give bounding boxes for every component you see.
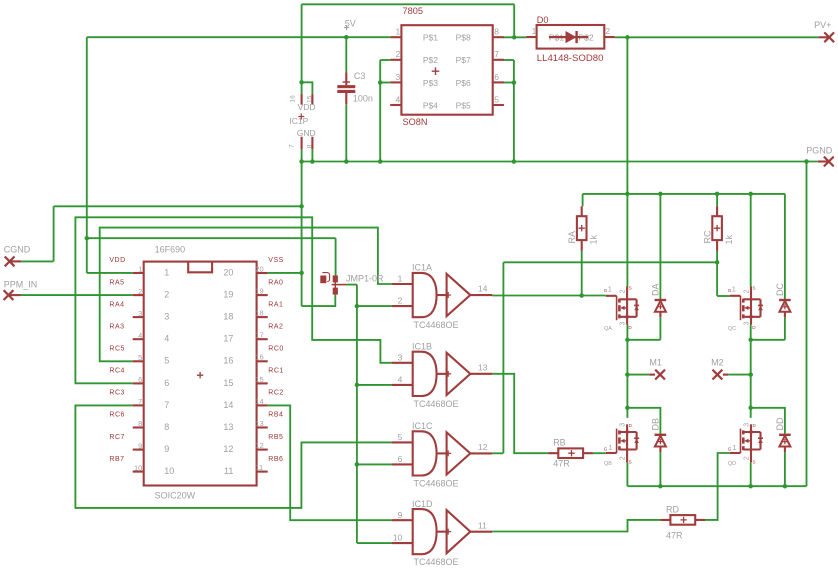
wire M1 column	[626, 325, 628, 418]
svg-text:RC6: RC6	[109, 412, 125, 419]
svg-text:1k: 1k	[589, 234, 599, 244]
svg-text:P$5: P$5	[456, 100, 471, 110]
wire bypass down	[513, 4, 515, 37]
wire top bypass	[302, 3, 515, 5]
wire C3 to rail	[345, 104, 347, 161]
svg-text:RA: RA	[567, 231, 577, 244]
wire DA bottom	[627, 339, 660, 341]
svg-text:11: 11	[478, 520, 487, 530]
voltage regulator 7805 (SO8N)	[390, 6, 504, 127]
svg-text:12: 12	[223, 444, 233, 454]
svg-text:13: 13	[255, 419, 263, 428]
wire RC4 to IC1B in1	[75, 217, 391, 383]
svg-text:3: 3	[744, 423, 751, 427]
wire CGND stub	[21, 260, 54, 262]
wire JMP1 to enable	[347, 284, 357, 286]
resistor RC 1k (vertical)	[703, 206, 734, 251]
transistor QA MOSFET	[604, 285, 639, 333]
svg-text:10: 10	[393, 533, 403, 543]
wire GND down to VSS	[301, 162, 303, 307]
wire to M2	[728, 374, 751, 376]
svg-text:IC1B: IC1B	[412, 342, 432, 352]
svg-text:5: 5	[398, 432, 403, 442]
svg-text:17: 17	[255, 331, 263, 340]
wire GND to JMP1 pad2	[302, 295, 336, 307]
junction	[344, 35, 349, 40]
capacitor C3 100n	[337, 71, 373, 104]
junction	[748, 192, 753, 197]
port CGND X	[5, 257, 15, 267]
wire P$2 P$3 to rail	[379, 60, 381, 162]
junction	[625, 406, 630, 411]
junction	[625, 338, 630, 343]
svg-text:RB5: RB5	[268, 434, 283, 441]
diode DA	[650, 283, 666, 317]
svg-text:RB7: RB7	[109, 456, 124, 463]
svg-text:4: 4	[395, 94, 400, 104]
svg-text:RC3: RC3	[109, 390, 125, 397]
wire IC1C out up	[502, 262, 504, 453]
wire GND to CGND	[54, 205, 302, 207]
svg-text:LL4148-SOD80: LL4148-SOD80	[537, 53, 604, 64]
svg-text:2: 2	[398, 296, 403, 306]
svg-text:PPM_IN: PPM_IN	[4, 280, 38, 290]
wire DD to rail	[784, 452, 786, 486]
diode DD	[775, 417, 791, 452]
wire RA bottom	[581, 251, 583, 296]
wire P$8 to D0	[503, 36, 526, 38]
svg-text:TC4468OE: TC4468OE	[414, 399, 459, 409]
svg-text:18: 18	[223, 312, 233, 322]
wire IC1B out to RB	[492, 374, 548, 453]
wire QC gate	[717, 295, 730, 297]
svg-text:P$4: P$4	[423, 100, 438, 110]
wire PGND bottom rail	[627, 485, 806, 487]
wire DC bottom	[751, 339, 785, 341]
driver gate IC1D TC4468	[392, 499, 493, 567]
junction	[658, 484, 663, 489]
svg-text:RC1: RC1	[268, 368, 284, 375]
svg-text:IC1C: IC1C	[412, 421, 433, 431]
junction	[715, 192, 720, 197]
svg-text:16: 16	[289, 95, 296, 103]
wire DD top	[751, 408, 785, 434]
svg-text:2: 2	[605, 26, 610, 36]
resistor RD 47R (horizontal)	[661, 505, 705, 541]
microcontroller IC1 16F690 SOIC20W	[109, 245, 283, 501]
diode DB	[650, 418, 666, 452]
svg-text:13: 13	[478, 362, 488, 372]
svg-text:5: 5	[164, 356, 169, 366]
svg-text:6: 6	[398, 454, 403, 464]
svg-text:47R: 47R	[666, 530, 683, 540]
port PPM_IN X	[4, 290, 14, 300]
wire IC1A out to QA gate	[492, 295, 606, 297]
wire RD to QD gate	[705, 453, 730, 520]
svg-text:7805: 7805	[403, 6, 423, 16]
svg-text:15: 15	[255, 375, 263, 384]
svg-text:1: 1	[608, 285, 612, 294]
svg-text:P$7: P$7	[456, 55, 471, 65]
wire DA anode	[659, 317, 661, 340]
junction	[344, 159, 349, 164]
svg-text:DC: DC	[775, 283, 785, 296]
svg-text:GND: GND	[297, 128, 316, 138]
wire RB to QB gate	[593, 452, 606, 454]
svg-text:15: 15	[223, 378, 233, 388]
wire RC3 to IC1C in1	[75, 405, 391, 508]
svg-text:9: 9	[398, 510, 403, 520]
svg-text:7: 7	[138, 397, 142, 406]
wire CGND vertical	[53, 206, 55, 261]
svg-text:16F690: 16F690	[155, 245, 186, 255]
svg-text:G: G	[728, 446, 732, 451]
power pins IC1P (VDD/GND)	[289, 94, 316, 149]
port PPM_IN	[4, 280, 38, 300]
svg-text:4: 4	[138, 331, 142, 340]
port PGND	[806, 145, 834, 166]
svg-text:3: 3	[398, 352, 403, 362]
svg-text:RA4: RA4	[109, 301, 124, 308]
port PV+ X	[824, 32, 834, 42]
svg-text:SOIC20W: SOIC20W	[155, 491, 196, 501]
wire DB to rail	[659, 452, 661, 486]
svg-text:S: S	[753, 460, 756, 465]
svg-text:DA: DA	[650, 283, 660, 296]
wire rail to DA	[659, 194, 661, 299]
wire PV+ rail	[583, 193, 785, 195]
junction	[658, 192, 663, 197]
svg-text:2: 2	[744, 289, 751, 293]
svg-text:14: 14	[255, 397, 263, 406]
svg-text:QC: QC	[728, 326, 736, 332]
svg-text:11: 11	[224, 466, 233, 476]
junction	[579, 293, 584, 298]
wire to IC1P pin15	[302, 82, 313, 94]
svg-text:16: 16	[255, 353, 263, 362]
port M1 X	[655, 370, 665, 380]
wire to M1	[627, 374, 649, 376]
svg-text:19: 19	[255, 287, 263, 296]
wire M2 column	[750, 325, 752, 418]
svg-text:47R: 47R	[553, 458, 570, 468]
port CGND	[4, 244, 31, 266]
svg-text:2: 2	[395, 49, 400, 59]
svg-text:P$3: P$3	[423, 78, 438, 88]
svg-text:RC0: RC0	[268, 346, 284, 353]
svg-text:RA1: RA1	[268, 301, 283, 308]
wire to P$7	[503, 59, 514, 61]
junction	[299, 159, 304, 164]
svg-text:D0: D0	[537, 15, 549, 25]
svg-text:S: S	[629, 460, 632, 465]
wire to RC bottom	[503, 261, 717, 263]
svg-text:M1: M1	[649, 357, 662, 367]
svg-text:3: 3	[620, 322, 627, 326]
junction	[355, 304, 360, 309]
svg-text:8: 8	[306, 144, 313, 148]
junction	[625, 192, 630, 197]
svg-text:RC7: RC7	[109, 434, 125, 441]
svg-text:7: 7	[164, 400, 169, 410]
svg-text:8: 8	[494, 27, 499, 37]
transistor QD MOSFET	[728, 423, 763, 467]
svg-text:20: 20	[255, 264, 263, 273]
wire PPM_IN to pin2	[21, 294, 133, 296]
svg-text:3: 3	[138, 309, 142, 318]
wire DB top	[627, 408, 660, 434]
wire D0 to PV+	[615, 36, 819, 38]
junction	[378, 159, 383, 164]
svg-text:10: 10	[134, 463, 142, 472]
svg-text:13: 13	[223, 422, 233, 432]
svg-text:C3: C3	[354, 71, 366, 81]
svg-text:TC4468OE: TC4468OE	[414, 320, 459, 330]
wire rail to DC	[784, 194, 786, 299]
wire QB source to rail	[626, 462, 628, 486]
wire to IC1 pin1 VDD	[87, 272, 133, 274]
wire RB4 to IC1D in1	[268, 405, 392, 520]
wire DC anode	[784, 317, 786, 340]
svg-text:6: 6	[138, 375, 142, 384]
svg-text:PGND: PGND	[806, 145, 833, 155]
svg-text:1: 1	[532, 26, 537, 36]
svg-text:P$1: P$1	[423, 33, 438, 43]
junction	[748, 372, 753, 377]
junction	[378, 80, 383, 85]
svg-text:19: 19	[223, 290, 233, 300]
port M2	[711, 357, 728, 379]
wire 5V horizontal	[87, 36, 390, 38]
svg-text:16: 16	[223, 356, 233, 366]
svg-text:11: 11	[255, 463, 263, 472]
svg-text:RA2: RA2	[268, 323, 283, 330]
wire enable column	[356, 285, 358, 543]
svg-text:IC1P: IC1P	[289, 116, 308, 126]
svg-text:G: G	[604, 446, 608, 451]
port PGND X	[824, 157, 834, 167]
svg-text:QB: QB	[604, 461, 612, 467]
junction	[299, 204, 304, 209]
svg-text:6: 6	[164, 378, 169, 388]
svg-text:P$2: P$2	[423, 55, 438, 65]
svg-text:M2: M2	[711, 357, 724, 367]
svg-text:3: 3	[620, 423, 627, 427]
wire GND rail	[302, 161, 818, 163]
svg-text:3: 3	[164, 312, 169, 322]
svg-text:1: 1	[398, 274, 403, 284]
svg-text:1k: 1k	[724, 234, 734, 244]
svg-text:VDD: VDD	[109, 257, 125, 264]
jumper JMP1-0R	[320, 273, 384, 295]
svg-text:DD: DD	[775, 417, 785, 430]
wire rail to RC	[716, 194, 718, 206]
wire to IC1P pin16	[301, 4, 303, 94]
svg-text:P$6: P$6	[456, 78, 471, 88]
svg-text:4: 4	[164, 334, 169, 344]
wire enable to IC1C in2	[357, 463, 392, 465]
wire IC1D out to RD	[492, 520, 661, 532]
svg-text:VDD: VDD	[298, 102, 316, 112]
junction	[625, 372, 630, 377]
wire RC5 to IC1A in1	[100, 228, 392, 362]
wire down to JMP1 pad1	[335, 238, 337, 275]
wire 5V to C3 top	[345, 37, 347, 72]
junction	[748, 484, 753, 489]
svg-text:1: 1	[138, 265, 142, 274]
svg-text:4: 4	[398, 375, 403, 385]
svg-text:7: 7	[289, 144, 296, 148]
driver gate IC1B TC4468	[392, 342, 493, 409]
junction	[748, 406, 753, 411]
wire RC to QC gate vertical	[716, 251, 718, 296]
junction	[355, 383, 360, 388]
svg-text:RC2: RC2	[268, 390, 284, 397]
wire rail to RA	[582, 194, 584, 206]
svg-text:1: 1	[609, 443, 613, 452]
svg-text:RC5: RC5	[109, 346, 125, 353]
svg-text:P$8: P$8	[456, 33, 471, 43]
svg-text:TC4468OE: TC4468OE	[414, 478, 459, 488]
svg-text:1: 1	[732, 285, 736, 294]
svg-text:VSS: VSS	[268, 257, 284, 264]
svg-text:8: 8	[138, 419, 142, 428]
transistor QB MOSFET	[604, 423, 639, 467]
svg-text:SO8N: SO8N	[403, 117, 428, 127]
svg-text:18: 18	[255, 309, 263, 318]
svg-text:2: 2	[620, 456, 627, 460]
svg-text:5: 5	[138, 353, 142, 362]
svg-text:DB: DB	[650, 418, 660, 431]
junction	[625, 35, 630, 40]
resistor RB 47R (horizontal)	[549, 438, 593, 469]
junction	[85, 236, 90, 241]
junction	[299, 271, 304, 276]
svg-text:2: 2	[138, 287, 142, 296]
svg-text:S: S	[629, 286, 632, 291]
wire rail to QA	[626, 194, 628, 287]
svg-text:RB4: RB4	[268, 412, 283, 419]
svg-text:CGND: CGND	[4, 244, 31, 254]
wire IC1 pin20 VSS	[268, 272, 302, 274]
wire enable to IC1D in2	[357, 542, 392, 544]
svg-text:QA: QA	[604, 326, 612, 332]
svg-text:12: 12	[478, 442, 488, 452]
svg-text:2: 2	[744, 456, 751, 460]
port PV+	[814, 20, 834, 42]
svg-text:PV+: PV+	[814, 20, 831, 30]
svg-text:6: 6	[494, 72, 499, 82]
junction	[512, 159, 517, 164]
junction	[512, 80, 517, 85]
svg-text:14: 14	[223, 400, 233, 410]
junction	[512, 35, 517, 40]
wire enable to IC1B in2	[357, 384, 392, 386]
wire P$7 P$6 to rail	[513, 60, 515, 162]
transistor QC MOSFET	[728, 285, 763, 333]
svg-text:RA5: RA5	[109, 279, 124, 286]
wire PGND vertical	[806, 162, 808, 487]
node 5V label	[344, 19, 356, 31]
junction	[355, 462, 360, 467]
svg-text:12: 12	[255, 441, 263, 450]
svg-text:IC1A: IC1A	[412, 263, 432, 273]
svg-text:1: 1	[732, 443, 736, 452]
wire VDD to JMP1	[87, 237, 336, 239]
wire 5V to VDD vertical	[86, 37, 88, 273]
junction	[783, 484, 788, 489]
port M2 X	[713, 370, 723, 380]
svg-text:RC4: RC4	[109, 368, 125, 375]
svg-text:17: 17	[223, 334, 233, 344]
wire QD source to rail	[750, 462, 752, 486]
svg-text:9: 9	[138, 441, 142, 450]
svg-text:7: 7	[494, 49, 499, 59]
junction	[748, 338, 753, 343]
svg-text:IC1D: IC1D	[412, 499, 433, 509]
junction	[804, 159, 809, 164]
svg-text:100n: 100n	[353, 94, 373, 104]
wire IC1C out	[492, 452, 503, 454]
svg-text:10: 10	[164, 466, 174, 476]
svg-text:RB6: RB6	[268, 456, 283, 463]
wire to P$2	[380, 59, 390, 61]
junction	[299, 80, 304, 85]
svg-text:S: S	[753, 286, 756, 291]
svg-text:QD: QD	[728, 461, 736, 467]
svg-text:20: 20	[223, 267, 233, 277]
svg-text:RA3: RA3	[109, 323, 124, 330]
svg-text:5: 5	[494, 94, 499, 104]
junction	[715, 260, 720, 265]
resistor RA 1k (vertical)	[567, 206, 598, 251]
driver gate IC1C TC4468	[392, 421, 493, 488]
svg-text:RD: RD	[666, 505, 679, 515]
svg-text:2: 2	[164, 290, 169, 300]
wire PV+ down	[626, 37, 628, 194]
diode D0 LL4148-SOD80	[526, 15, 614, 64]
wire IC1P pin8 to rail	[311, 149, 313, 161]
svg-text:JMP1-0R: JMP1-0R	[346, 274, 384, 284]
port M1	[649, 357, 665, 379]
svg-text:14: 14	[478, 284, 488, 294]
wire to P$3	[380, 82, 390, 84]
svg-text:RB: RB	[553, 438, 566, 448]
svg-text:3: 3	[744, 322, 751, 326]
junction	[310, 159, 315, 164]
wire enable to IC1A in2	[357, 305, 392, 307]
svg-text:8: 8	[164, 422, 169, 432]
svg-text:1: 1	[164, 267, 169, 277]
svg-text:3: 3	[395, 72, 400, 82]
svg-text:1: 1	[395, 27, 400, 37]
diode DC	[775, 283, 791, 318]
driver gate IC1A TC4468	[392, 263, 493, 330]
wire IC1P pin7 to rail	[301, 149, 303, 161]
wire rail to QC	[750, 194, 752, 287]
svg-text:RC: RC	[703, 230, 713, 243]
svg-text:9: 9	[164, 444, 169, 454]
svg-text:2: 2	[620, 289, 627, 293]
svg-text:RA0: RA0	[268, 279, 283, 286]
svg-text:TC4468OE: TC4468OE	[414, 557, 459, 567]
wire to P$6	[503, 82, 514, 84]
